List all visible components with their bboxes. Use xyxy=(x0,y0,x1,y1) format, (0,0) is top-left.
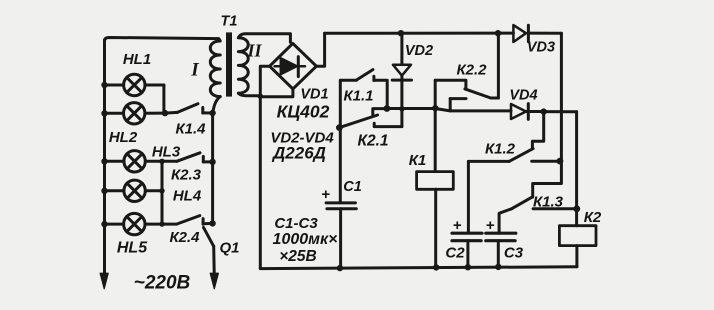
junction HL4 xyxy=(159,188,164,193)
wire HL1 to HL2 join xyxy=(162,85,165,113)
junction rail C3 xyxy=(495,264,501,270)
svg-text:С2: С2 xyxy=(445,245,465,262)
svg-text:HL1: HL1 xyxy=(123,51,151,68)
junction bus-HL4 xyxy=(101,188,107,194)
wire winding II bottom lead xyxy=(238,93,260,96)
junction K1.3 stub xyxy=(573,205,580,212)
contact K1.3 xyxy=(512,197,577,209)
svg-text:VD3: VD3 xyxy=(527,40,555,56)
junction bus-HL3 xyxy=(101,158,107,164)
svg-text:1000мк×: 1000мк× xyxy=(273,231,338,248)
transformer T1 winding I xyxy=(210,39,220,97)
wire winding II top lead xyxy=(238,34,290,42)
svg-text:+: + xyxy=(486,217,495,234)
junction rail C1 xyxy=(337,265,343,271)
junction node K1.1 xyxy=(384,105,391,112)
junction secondary-bottom xyxy=(258,94,263,99)
junction rail K1 xyxy=(433,264,439,270)
svg-text:К2: К2 xyxy=(584,209,602,226)
svg-text:+: + xyxy=(321,186,330,203)
wire left bus xyxy=(103,40,106,273)
svg-text:VD4: VD4 xyxy=(509,88,537,104)
svg-text:×25В: ×25В xyxy=(279,248,317,265)
node ~220V left arrow xyxy=(100,273,108,289)
svg-text:Т1: Т1 xyxy=(221,14,238,30)
junction K2.3 right bus xyxy=(209,159,215,165)
wire HL3-HL4-HL5 join xyxy=(161,161,164,224)
svg-text:C1: C1 xyxy=(343,179,362,195)
transformer T1 core xyxy=(226,32,232,96)
svg-text:VD1: VD1 xyxy=(300,87,328,103)
svg-text:I: I xyxy=(190,60,199,81)
wire right bus xyxy=(211,113,214,223)
wire K2.2 riser to top rail xyxy=(497,33,500,98)
contact K2.4 xyxy=(162,216,213,225)
svg-text:VD2: VD2 xyxy=(405,43,433,59)
junction top-rail VD3 xyxy=(495,30,501,36)
svg-text:С3: С3 xyxy=(504,245,524,262)
svg-text:HL5: HL5 xyxy=(117,240,148,257)
junction rail C2 xyxy=(465,264,471,270)
svg-text:HL2: HL2 xyxy=(109,129,138,146)
contact K1.1 xyxy=(341,70,387,109)
junction K1.4 right bus xyxy=(209,110,215,116)
junction bus-HL1 xyxy=(101,82,107,88)
svg-text:К1.1: К1.1 xyxy=(343,88,373,105)
svg-text:К1: К1 xyxy=(409,152,427,169)
junction node K2.2 xyxy=(432,105,438,111)
svg-text:II: II xyxy=(246,41,262,61)
junction K1.2 stub xyxy=(557,158,564,165)
lamp HL1 xyxy=(105,74,164,95)
bridge rectifier VD1 xyxy=(270,43,317,89)
junction HL1-HL2 xyxy=(162,110,168,116)
svg-text:К2.4: К2.4 xyxy=(169,229,200,246)
junction VD4 cathode xyxy=(541,108,547,114)
wire K2.2 common to node xyxy=(434,80,437,108)
svg-text:Q1: Q1 xyxy=(219,240,239,257)
svg-text:+: + xyxy=(453,217,462,234)
lamp HL3 xyxy=(105,151,163,172)
svg-text:КЦ402: КЦ402 xyxy=(277,102,330,122)
wire winding I bottom lead xyxy=(213,97,220,113)
capacitor C1 xyxy=(326,203,356,268)
relay coil K2 xyxy=(559,226,596,267)
contact K2.2 xyxy=(435,80,498,111)
svg-text:HL3: HL3 xyxy=(152,144,181,161)
contact K2.3 xyxy=(162,153,213,162)
contact K1.2 xyxy=(468,112,560,162)
contact K2.1 xyxy=(339,109,402,128)
wire left node vertical to C1 xyxy=(339,80,342,202)
junction bus-HL2 xyxy=(101,110,107,116)
svg-text:К2.1: К2.1 xyxy=(357,133,388,150)
relay coil K1 xyxy=(417,108,454,267)
svg-text:К1.2: К1.2 xyxy=(485,141,516,158)
lamp HL4 xyxy=(105,180,163,201)
lamp HL2 xyxy=(105,103,166,124)
wire top-left rail xyxy=(105,38,219,42)
junction K2.4-Q1 xyxy=(209,220,215,226)
junction top-rail VD2 xyxy=(398,30,404,36)
svg-text:К2.3: К2.3 xyxy=(171,167,202,184)
wire bridge right vertex to top rail xyxy=(316,33,324,66)
svg-text:HL4: HL4 xyxy=(173,188,202,205)
wire VD3 riser xyxy=(533,33,562,197)
node ~220V right arrow xyxy=(210,273,218,289)
switch Q1 xyxy=(204,227,215,272)
svg-text:К1.3: К1.3 xyxy=(533,194,564,211)
wire bottom rail xyxy=(260,267,577,269)
junction HL3-K2.3 xyxy=(159,159,164,164)
svg-text:С1-С3: С1-С3 xyxy=(274,215,318,232)
svg-text:К1.4: К1.4 xyxy=(175,121,206,138)
wire node line K1.1/VD2/K2.2 xyxy=(387,109,511,111)
lamp HL5 xyxy=(105,213,163,234)
contact K1.4 xyxy=(165,104,213,113)
svg-text:Д226Д: Д226Д xyxy=(271,144,326,163)
wire top rail xyxy=(325,32,514,35)
transformer T1 winding II xyxy=(238,38,248,93)
svg-text:~220В: ~220В xyxy=(134,273,191,294)
wire bridge bottom vertex xyxy=(260,89,293,97)
wire bridge left vertex to secondary bottom xyxy=(260,66,269,268)
diode VD4 xyxy=(511,104,577,120)
wire VD4 corner riser to K2 xyxy=(575,112,578,226)
capacitor C2 xyxy=(452,161,482,267)
capacitor C3 xyxy=(486,209,516,267)
diode VD3 xyxy=(513,25,528,42)
diode VD2 xyxy=(392,33,411,126)
svg-text:К2.2: К2.2 xyxy=(456,62,487,79)
junction HL5-K2.4 xyxy=(159,221,164,226)
junction K2.1 pivot xyxy=(336,124,343,131)
junction bus-HL5 xyxy=(101,221,107,227)
junction node VD2 xyxy=(399,106,404,111)
